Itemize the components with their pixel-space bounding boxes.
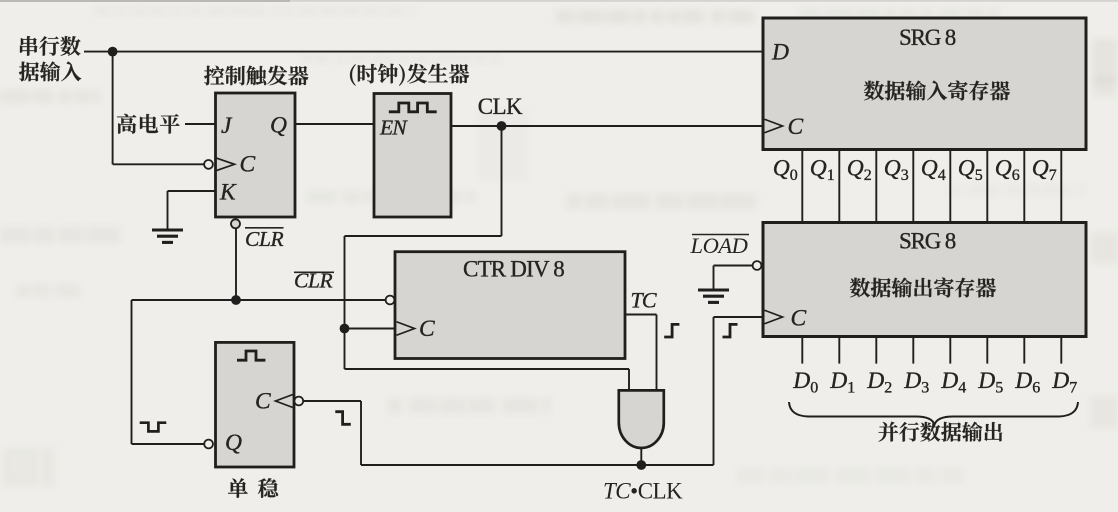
clock waveform symbol in generator (389, 103, 437, 112)
wire TC.CLK horizontal to output register (361, 464, 714, 466)
wire TC output of counter (625, 314, 657, 316)
label CLR at counter (294, 269, 334, 293)
label 据输入 (19, 62, 81, 82)
wire K to ground stem (167, 191, 169, 229)
label 串行数 (20, 36, 81, 56)
wire monostable C bubble right (303, 400, 361, 402)
brace 并行数据输出 (789, 402, 1078, 425)
edge-trigger triangle C of input register (765, 119, 783, 133)
label 数据输入寄存器 (864, 81, 1010, 101)
edge-trigger triangle C of monostable (276, 394, 294, 408)
svg-text:K: K (219, 180, 237, 206)
wire CLK down (501, 126, 503, 236)
inversion bubble CLR of JK (231, 219, 240, 228)
node 串行数据输入 input stub (84, 51, 113, 53)
wires D0-D7 parallel outputs (802, 337, 1061, 364)
rising edge symbol near output register C (723, 324, 738, 337)
svg-text:TC: TC (631, 288, 657, 313)
label 并行数据输出 (879, 422, 1003, 442)
wire clock generator output CLK to C of input register (451, 125, 764, 127)
wire TC down to AND gate right input (656, 315, 658, 393)
clock generator 时钟发生器 box (374, 94, 451, 218)
edge-trigger triangle C of output register (765, 310, 783, 324)
ground for LOAD (698, 290, 729, 302)
wire 高电平 to J input (185, 123, 216, 125)
svg-text:C: C (419, 316, 435, 342)
inversion bubble CLR of CTR (386, 296, 395, 305)
wire junction down to C of JK (112, 52, 114, 165)
wire CLK to AND gate left input horizontal (345, 368, 630, 370)
wires Q0-Q7 to input of output register (802, 150, 1061, 224)
node CLR junction (231, 295, 241, 305)
monostable 单稳 box (216, 342, 295, 467)
shift register SRG 8 data input register box (763, 18, 1086, 150)
svg-text:Q: Q (270, 113, 287, 139)
svg-text:C: C (791, 306, 807, 332)
shift register SRG 8 data output register box (763, 223, 1086, 337)
label CLR of JK (245, 227, 284, 251)
svg-text:Q: Q (225, 430, 242, 456)
label 高电平 (117, 114, 180, 134)
wire LOAD ground stem (713, 266, 715, 290)
label 控制触发器 (204, 66, 308, 86)
svg-text:CLK: CLK (478, 94, 523, 119)
wire into C of CTR DIV 8 (345, 328, 398, 330)
wire CLK left (345, 235, 502, 237)
svg-text:SRG 8: SRG 8 (899, 25, 956, 50)
svg-text:C: C (788, 114, 804, 140)
label 数据输出寄存器 (850, 278, 996, 298)
wire up to C of output register (713, 317, 715, 465)
wire serial data to D input (113, 51, 764, 53)
wire AND gate output stub (640, 447, 642, 465)
wire CLR net down left side (131, 300, 133, 444)
labels D0-D7 (792, 368, 1077, 397)
inversion bubble C of JK (204, 160, 213, 169)
counter CTR DIV 8 box (395, 252, 625, 359)
wire CLK down to counter (344, 236, 346, 369)
positive pulse symbol in monostable (237, 351, 265, 360)
svg-text:SRG 8: SRG 8 (899, 229, 956, 254)
wire into C bubble of JK (113, 163, 204, 165)
wire CLR horizontal to counter CLR (132, 299, 386, 301)
junction serial data (108, 47, 118, 57)
wire to Q bubble of monostable (132, 443, 205, 445)
label 单稳 (228, 478, 278, 498)
wire K input of JK (168, 190, 217, 192)
ground below K of JK (152, 230, 183, 242)
falling edge symbol near monostable C (335, 412, 351, 425)
wire CLR bubble of JK down (235, 228, 237, 300)
svg-text:C: C (255, 389, 271, 415)
JK control flip-flop 控制触发器 box (216, 93, 296, 217)
top page rule (0, 0, 1118, 2)
wire LOAD bubble to ground (714, 265, 753, 267)
node CLK junction (497, 121, 507, 131)
wire AND gate left input drop (628, 369, 630, 392)
edge-trigger triangle C of JK (216, 158, 235, 171)
svg-text:C: C (240, 152, 256, 178)
rising edge symbol near TC (664, 324, 679, 337)
wire down from monostable C net (360, 401, 362, 465)
wire Q of JK to EN of clock generator (295, 123, 374, 125)
edge-trigger triangle C of CTR (397, 322, 415, 336)
inversion bubble C of monostable (294, 397, 303, 406)
svg-text:TC•CLK: TC•CLK (603, 479, 683, 504)
labels Q0-Q7 (773, 156, 1057, 185)
svg-text:CLR: CLR (245, 227, 283, 251)
svg-text:CTR DIV 8: CTR DIV 8 (463, 257, 564, 282)
AND gate (619, 390, 664, 448)
label LOAD (690, 233, 750, 258)
negative pulse symbol near Q of monostable (140, 423, 167, 432)
svg-text:EN: EN (379, 116, 408, 140)
inversion bubble LOAD of output register (753, 261, 762, 270)
inversion bubble Q of monostable (204, 440, 213, 449)
svg-text:D: D (771, 40, 789, 66)
svg-text:J: J (221, 113, 233, 139)
node TC.CLK junction (636, 460, 646, 470)
node counter C junction (340, 324, 350, 334)
wire into C of output register (714, 316, 765, 318)
svg-text:LOAD: LOAD (690, 233, 748, 258)
label (时钟)发生器 (350, 64, 469, 86)
